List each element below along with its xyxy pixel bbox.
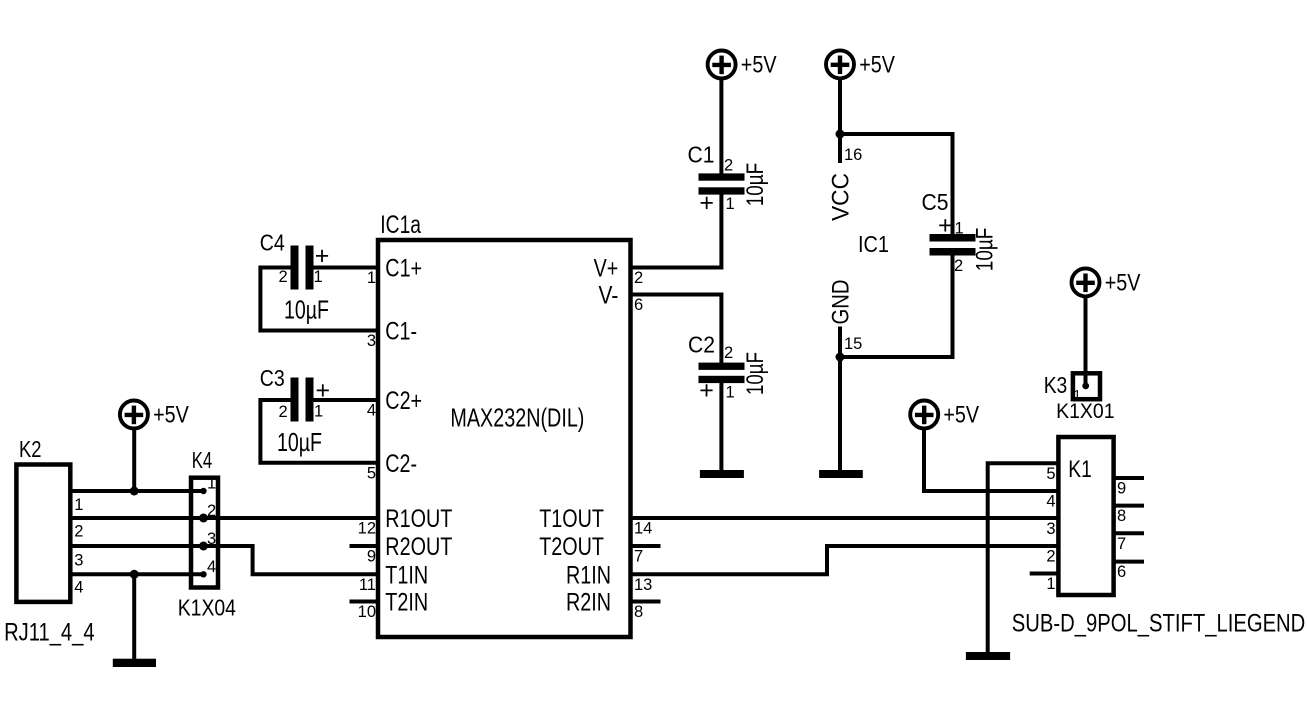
svg-text:IC1: IC1 — [858, 231, 889, 257]
svg-text:8: 8 — [1117, 507, 1126, 525]
svg-text:10µF: 10µF — [284, 294, 329, 324]
capacitor C4 10uF — [260, 230, 330, 325]
junction VCC pin 16 / C5 branch — [836, 130, 845, 139]
svg-text:K2: K2 — [19, 436, 42, 462]
svg-text:10µF: 10µF — [972, 228, 999, 272]
svg-text:1: 1 — [955, 220, 964, 238]
junction K2 pin 4 net / ground branch — [130, 570, 139, 579]
ground below IC1 GND pin — [819, 470, 863, 478]
svg-text:2: 2 — [1046, 548, 1055, 566]
wire VCC junction to C5 plate 1 — [840, 134, 953, 235]
svg-text:R2OUT: R2OUT — [385, 533, 452, 561]
wire C4 pin 2 to IC C1- pin 3 — [260, 268, 378, 331]
power +5V supply (above K3) — [1072, 268, 1141, 296]
svg-text:C2-: C2- — [385, 450, 417, 478]
svg-text:K1X04: K1X04 — [178, 594, 236, 620]
K1 pin 1 stub — [1030, 574, 1059, 594]
capacitor C2 10uF — [688, 332, 769, 405]
svg-text:9: 9 — [1117, 480, 1126, 498]
svg-text:+5V: +5V — [943, 401, 979, 428]
svg-text:3: 3 — [207, 530, 216, 548]
wire C1 plate 1 to IC V+ pin 2 — [631, 194, 722, 267]
power +5V supply (to K1 pin 4) — [910, 401, 979, 429]
IC IC1a MAX232N(DIL) body — [378, 211, 631, 637]
svg-text:11: 11 — [359, 576, 376, 594]
svg-text:+5V: +5V — [741, 51, 777, 78]
svg-text:T2OUT: T2OUT — [539, 533, 604, 561]
capacitor C5 10uF — [922, 189, 999, 275]
svg-text:C1-: C1- — [385, 318, 417, 346]
svg-text:C2: C2 — [688, 332, 715, 358]
wire +5V to K3 pin 1 — [1084, 296, 1088, 386]
ground below K2 pin 4 net — [113, 659, 156, 667]
svg-text:10µF: 10µF — [742, 352, 769, 395]
svg-text:+5V: +5V — [859, 51, 895, 78]
IC1a pin 1 C1+ — [367, 255, 422, 288]
wire IC R1IN pin 13 to K1 pin 2 — [631, 546, 1059, 574]
svg-text:VCC: VCC — [828, 173, 855, 221]
svg-text:4: 4 — [207, 558, 216, 576]
IC1 power pin 16 VCC — [828, 134, 863, 221]
svg-text:+: + — [938, 212, 953, 240]
wire IC V- pin 6 to C2 plate 2 — [631, 295, 722, 364]
K4 pin 3 — [199, 530, 216, 551]
IC1a pin 13 R1IN — [566, 561, 652, 594]
svg-text:T1IN: T1IN — [385, 561, 428, 589]
svg-text:1: 1 — [367, 269, 376, 287]
wire C3 pin 1 to IC C2+ pin 4 — [314, 398, 379, 402]
svg-text:3: 3 — [367, 332, 376, 350]
svg-text:C4: C4 — [260, 230, 285, 256]
wire GND junction to ground — [838, 357, 842, 471]
svg-text:RJ11_4_4: RJ11_4_4 — [4, 619, 95, 647]
svg-text:IC1a: IC1a — [380, 211, 421, 239]
svg-text:K1X01: K1X01 — [1056, 400, 1115, 423]
svg-text:10µF: 10µF — [742, 163, 769, 207]
svg-text:2: 2 — [279, 403, 288, 421]
wire IC T1OUT pin 14 to K1 pin 3 — [631, 516, 1059, 520]
wire K4 pin 3 to IC T1IN pin 11 — [204, 546, 379, 574]
svg-text:K4: K4 — [192, 447, 213, 473]
svg-text:5: 5 — [1046, 465, 1055, 483]
wire +5V to K1 pin 4 — [924, 427, 1058, 491]
svg-text:2: 2 — [634, 269, 643, 287]
svg-text:4: 4 — [74, 579, 83, 597]
wire K2 pin 2 through K4 pin 2 to IC R1OUT pin 12 — [70, 516, 378, 520]
capacitor C3 10uF — [260, 365, 330, 457]
junction +5V / K2 pin 1 net — [130, 487, 139, 496]
svg-text:8: 8 — [634, 603, 643, 621]
power +5V supply (above IC1 VCC) — [826, 50, 895, 78]
svg-text:2: 2 — [207, 502, 216, 520]
svg-text:V+: V+ — [594, 255, 619, 283]
svg-text:+5V: +5V — [153, 401, 189, 428]
svg-text:3: 3 — [74, 552, 83, 570]
IC1a pin 12 R1OUT — [358, 505, 453, 538]
power +5V supply (above C1) — [708, 51, 777, 79]
svg-text:10µF: 10µF — [277, 427, 322, 457]
wire K2 pin 4 to K4 pin 4 — [70, 572, 203, 576]
K4 pin 1 — [200, 475, 216, 495]
K4 pin 4 — [200, 558, 216, 578]
svg-text:13: 13 — [634, 576, 652, 594]
IC1a pin 10 T2IN — [350, 589, 429, 622]
IC1a pin 3 C1- — [367, 318, 417, 351]
svg-text:1: 1 — [207, 475, 216, 493]
wire C5 plate 2 to GND junction — [840, 255, 953, 357]
svg-text:7: 7 — [1117, 535, 1126, 553]
wire +5V down to VCC junction — [838, 77, 842, 134]
wire K2 pin 1 to K4 pin 1 — [70, 489, 203, 493]
svg-text:2: 2 — [724, 344, 733, 362]
svg-text:16: 16 — [844, 146, 862, 164]
svg-text:2: 2 — [74, 523, 83, 541]
connector K4 K1X04 body — [178, 447, 236, 620]
svg-text:15: 15 — [844, 335, 862, 353]
svg-text:SUB-D_9POL_STIFT_LIEGEND: SUB-D_9POL_STIFT_LIEGEND — [1012, 609, 1306, 637]
wire C3 pin 2 to IC C2- pin 5 — [260, 400, 378, 463]
connector K1 SUB-D_9POL_STIFT_LIEGEND body — [1012, 437, 1306, 637]
IC1 power pin 15 GND — [828, 280, 863, 358]
svg-text:C1: C1 — [688, 142, 715, 168]
svg-text:4: 4 — [1046, 493, 1055, 511]
svg-text:4: 4 — [367, 402, 376, 420]
svg-text:R1IN: R1IN — [566, 561, 611, 589]
IC1a pin 7 T2OUT — [539, 533, 660, 566]
IC1a pin 6 V- — [599, 282, 644, 315]
svg-text:+5V: +5V — [1105, 269, 1141, 296]
svg-text:R1OUT: R1OUT — [385, 505, 452, 533]
svg-text:R2IN: R2IN — [566, 589, 611, 617]
svg-text:2: 2 — [954, 257, 963, 275]
svg-text:7: 7 — [634, 548, 643, 566]
svg-text:MAX232N(DIL): MAX232N(DIL) — [450, 403, 584, 433]
svg-text:1: 1 — [74, 496, 83, 514]
svg-text:6: 6 — [634, 296, 643, 314]
wire ground to K1 pin 5 — [988, 463, 1059, 653]
connector K2 RJ11_4_4 body — [4, 436, 95, 647]
wire C2 plate 1 to ground — [719, 382, 723, 471]
svg-text:6: 6 — [1117, 563, 1126, 581]
K3 pin 1 — [1074, 383, 1090, 403]
svg-text:GND: GND — [828, 280, 855, 325]
svg-text:14: 14 — [634, 520, 652, 538]
IC1a pin 5 C2- — [367, 450, 417, 483]
svg-text:2: 2 — [279, 268, 288, 286]
IC1a pin 11 T1IN — [359, 561, 428, 594]
wire +5V down to K2 pin 1 net — [132, 427, 136, 491]
power +5V supply (left, to K2/K4 net) — [120, 401, 189, 429]
svg-text:K1: K1 — [1068, 456, 1092, 483]
svg-text:1: 1 — [726, 195, 735, 213]
K1 pin 6 stub — [1114, 562, 1144, 582]
svg-text:1: 1 — [314, 403, 323, 421]
wire K2 pin 4 net to ground — [132, 574, 136, 660]
wire +5V to C1 plate 2 — [719, 77, 723, 174]
wire K2 pin 3 to K4 pin 3 — [70, 544, 203, 548]
svg-text:1: 1 — [314, 268, 323, 286]
svg-text:12: 12 — [358, 520, 376, 538]
K4 pin 2 — [199, 502, 216, 523]
capacitor C1 10uF — [688, 142, 769, 218]
IC1a pin 2 V+ — [594, 255, 644, 288]
svg-text:2: 2 — [724, 157, 733, 175]
svg-text:C3: C3 — [260, 365, 285, 391]
junction GND pin 15 / C5 branch — [836, 353, 845, 362]
svg-text:T2IN: T2IN — [385, 589, 428, 617]
ground below K1 pin 5 — [966, 652, 1010, 660]
svg-text:C2+: C2+ — [385, 387, 422, 415]
svg-text:+: + — [699, 189, 714, 217]
IC1a pin 9 R2OUT — [350, 533, 453, 566]
svg-text:10: 10 — [358, 603, 376, 621]
svg-text:T1OUT: T1OUT — [539, 505, 604, 533]
wire C4 pin 1 to IC C1+ pin 1 — [314, 266, 379, 270]
svg-text:1: 1 — [1046, 575, 1055, 593]
K1 pin 8 stub — [1114, 506, 1144, 526]
K1 pin 9 stub — [1114, 478, 1144, 498]
svg-text:1: 1 — [726, 383, 735, 401]
connector K3 K1X01 body — [1044, 372, 1115, 423]
IC1a pin 4 C2+ — [367, 387, 422, 420]
svg-text:C1+: C1+ — [385, 255, 422, 283]
svg-text:5: 5 — [367, 464, 376, 482]
svg-text:1: 1 — [1074, 387, 1081, 402]
svg-text:V-: V- — [599, 282, 619, 310]
K1 pin 7 stub — [1114, 533, 1144, 553]
svg-text:3: 3 — [1046, 520, 1055, 538]
svg-text:9: 9 — [367, 548, 376, 566]
svg-text:K3: K3 — [1044, 372, 1068, 398]
IC1a pin 14 T1OUT — [539, 505, 652, 538]
ground below C2 — [700, 470, 744, 478]
IC1a pin 8 R2IN — [566, 589, 661, 622]
svg-text:+: + — [699, 377, 714, 405]
